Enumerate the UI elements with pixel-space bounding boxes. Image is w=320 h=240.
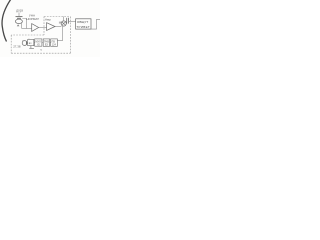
ground stub under block A [29, 46, 34, 49]
wire block B to block C [42, 41, 43, 43]
capacitor C1 plate top [16, 16, 23, 18]
capacitor C2 plate right [68, 18, 70, 24]
amplifier A1 triangle [32, 24, 39, 32]
wire A2 to mixer [55, 26, 61, 28]
oscillator G1 bar [25, 41, 27, 45]
svg-text:НОРМАТ: НОРМАТ [26, 17, 39, 21]
dashed enclosure top edge [44, 16, 71, 18]
dashed enclosure left upper edge [43, 17, 45, 36]
wire block A to block B [33, 41, 36, 43]
wire capacitor tap to bus [22, 19, 26, 29]
svg-text:дорз: дорз [16, 9, 23, 13]
wire block C to block D [50, 41, 51, 43]
svg-text:ОВЩУТ: ОВЩУТ [77, 20, 89, 24]
object box [76, 19, 91, 29]
wire bus to amplifier [22, 28, 32, 30]
room boundary arc [2, 0, 11, 42]
wire capacitor to object box [69, 20, 76, 22]
arrow below microphone [17, 24, 20, 26]
capacitor C2 plate left [66, 18, 68, 24]
amplifier A2 triangle [47, 23, 55, 31]
dashed enclosure middle edge [11, 34, 44, 36]
block D box [51, 39, 58, 46]
stub mixer to enclosure top [63, 17, 65, 21]
wire mixer down to oscillator chain [57, 26, 62, 41]
capacitor C1 plate bottom [17, 17, 21, 19]
svg-text:ю: ю [40, 48, 42, 51]
wire object box to antenna [91, 19, 100, 29]
mixer U1 circle [61, 21, 66, 26]
dashed enclosure left lower edge [10, 35, 12, 53]
svg-text:Амр: Амр [45, 17, 51, 21]
block A box [28, 39, 34, 45]
wire mixer to capacitor C2 [66, 21, 68, 23]
dashed enclosure right edge [70, 17, 72, 54]
wire from label to capacitor [18, 13, 20, 17]
wire A1 to A2 [39, 27, 47, 29]
oscillator G1 circle [22, 41, 27, 46]
mixer U1 cross [62, 22, 65, 25]
block C box [43, 39, 49, 46]
svg-text:27,38: 27,38 [13, 44, 21, 48]
wire microphone down to bus [21, 23, 23, 28]
block B box [35, 39, 42, 46]
wire G1 to block A [26, 42, 29, 44]
svg-text:ТРИВЕТ: ТРИВЕТ [76, 25, 90, 29]
dashed enclosure bottom edge [11, 52, 70, 54]
svg-text:124: 124 [52, 43, 57, 46]
microphone BM1 capsule [15, 19, 22, 23]
